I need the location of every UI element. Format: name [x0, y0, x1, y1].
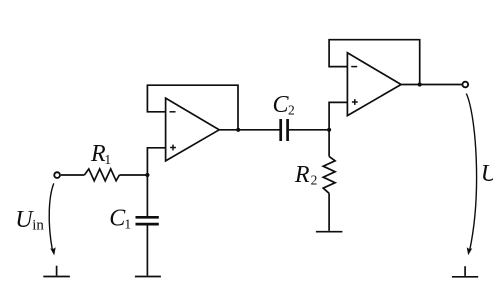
label R1: [90, 141, 111, 167]
svg-text:C: C: [273, 92, 290, 118]
wire input to R1: [61, 174, 85, 176]
wire node A down to C1: [146, 175, 148, 216]
wire node B down to R2: [328, 130, 330, 157]
wire R1 to node A: [119, 174, 147, 176]
svg-text:1: 1: [124, 216, 131, 231]
resistor R1: [84, 169, 119, 181]
op-amp U2: [347, 53, 401, 116]
wire U2 output to terminal: [401, 84, 462, 86]
output terminal circle: [462, 82, 468, 88]
svg-text:2: 2: [311, 173, 318, 188]
label Uin: [15, 207, 44, 233]
capacitor C2: [281, 119, 288, 141]
node B: [327, 128, 331, 132]
arrowhead U: [467, 247, 473, 255]
op-amp U1: [166, 98, 220, 161]
svg-text:1: 1: [104, 152, 111, 167]
op-amp U2 plus sign: [352, 99, 358, 105]
label C2: [273, 92, 295, 118]
input terminal circle: [54, 172, 60, 178]
wire R2 to ground: [328, 193, 330, 231]
arrow Uin (input voltage): [49, 183, 54, 250]
wire U2 feedback: - input to top rail to output: [329, 40, 420, 85]
svg-text:R: R: [294, 162, 310, 188]
arrow U (output voltage): [466, 94, 476, 251]
ground (C1): [135, 276, 161, 278]
node A: [145, 173, 149, 177]
wire U1 output: [219, 129, 279, 131]
op-amp U1 minus sign: [170, 111, 176, 113]
wire node B up to op-amp U2 + input: [329, 102, 347, 129]
ground (output): [452, 266, 478, 277]
svg-text:U: U: [481, 161, 493, 187]
ground (input): [43, 266, 70, 277]
label C1: [109, 206, 131, 232]
label U (output): [481, 161, 493, 187]
capacitor C1: [136, 217, 159, 224]
wire C1 to ground: [146, 225, 148, 275]
label R2: [294, 162, 317, 188]
node U2 output/feedback: [418, 82, 422, 86]
svg-text:in: in: [32, 217, 44, 233]
wire U1 feedback: - input to top rail to output: [147, 85, 238, 130]
node U1 output/feedback: [236, 128, 240, 132]
arrowhead Uin: [50, 247, 56, 255]
op-amp U1 plus sign: [170, 145, 176, 151]
wire node A up to op-amp U1 + input: [147, 148, 165, 175]
resistor R2: [323, 156, 335, 193]
op-amp U2 minus sign: [351, 66, 357, 68]
ground (R2): [316, 231, 343, 233]
svg-text:2: 2: [288, 103, 295, 118]
wire C2 to node B: [289, 129, 329, 131]
